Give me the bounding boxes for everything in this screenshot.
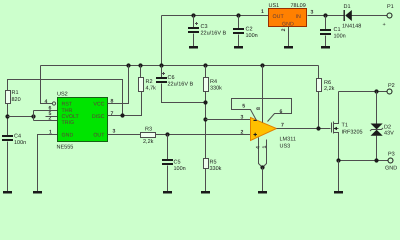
wire: mid VCC rail y=65 <box>41 65 319 67</box>
ground (C1) <box>321 46 330 49</box>
wire: CVOLT pin 5 stub <box>46 116 58 118</box>
svg-text:1N4148: 1N4148 <box>342 24 361 30</box>
capacitor C4 <box>2 135 13 192</box>
node: dot LM311 pin8 riser on rail <box>260 63 264 67</box>
node: junction dot D2 top <box>374 89 378 93</box>
resistor R5 <box>204 120 209 192</box>
resistor R4 <box>204 66 209 120</box>
capacitor C5 <box>162 135 173 192</box>
wire: minus input net to LM311 pin 3 <box>206 119 251 121</box>
resistor R6 <box>317 66 322 129</box>
node: junction dot THR-TRIG tie <box>31 114 35 118</box>
svg-text:P3: P3 <box>388 151 395 157</box>
svg-text:NE555: NE555 <box>57 145 74 151</box>
label R3 value <box>143 127 154 146</box>
svg-text:100n: 100n <box>246 33 258 39</box>
label R1 value <box>12 90 21 103</box>
wire: THR-TRIG vertical tie <box>33 111 35 121</box>
svg-text:D1: D1 <box>344 4 351 10</box>
label D1 value <box>342 4 361 30</box>
svg-text:7: 7 <box>281 123 284 129</box>
label LM311 US3 <box>280 137 296 150</box>
wire: rail down to 555 RST pin 4 <box>41 66 53 104</box>
svg-text:GND: GND <box>62 133 74 139</box>
IC US1 78L09 regulator <box>269 9 307 28</box>
svg-text:T1: T1 <box>342 123 348 129</box>
svg-text:8: 8 <box>256 107 262 110</box>
node: junction dot C6/R4 bottom <box>203 100 207 104</box>
wire: LM311 pin 1 down to ground join <box>263 140 267 168</box>
label C4 value <box>14 134 26 147</box>
svg-text:OUT: OUT <box>93 133 105 139</box>
svg-text:GND: GND <box>282 22 294 28</box>
wire: 555 GND pin 1 to ground <box>38 135 58 192</box>
node: junction dot LM311 gnd pins <box>260 165 264 169</box>
svg-text:820: 820 <box>12 97 21 103</box>
wire: balance loop pins 5 and 6 <box>232 99 292 122</box>
svg-text:C3: C3 <box>201 24 208 30</box>
svg-text:R2: R2 <box>146 79 153 85</box>
label US1 78L09 <box>269 3 306 9</box>
wire: D1 anode to P1 <box>352 15 388 17</box>
node: dot C6 cross on rail <box>159 63 163 67</box>
svg-text:1: 1 <box>49 130 52 136</box>
svg-text:C2: C2 <box>246 27 253 33</box>
node: junction dot DISC/R1 branch <box>120 113 124 117</box>
node: dot R2 top on rail <box>138 63 142 67</box>
svg-text:+: + <box>383 22 386 28</box>
wire: 555 VCC pin 8 riser to rail <box>108 66 129 104</box>
node: RST inversion bubble <box>52 102 55 105</box>
wire: source rail to P3 <box>339 160 389 162</box>
wire: 555 OUT pin 3 to R3 <box>108 134 141 136</box>
wire: THR pin 6 lead <box>34 110 58 112</box>
node: junction dot C3 tap <box>191 13 195 17</box>
wire: TRIG pin 2 lead <box>34 120 58 122</box>
svg-text:2,2k: 2,2k <box>324 86 335 92</box>
ground (T1 source) <box>334 191 343 194</box>
svg-text:3: 3 <box>241 115 244 121</box>
label R4 value <box>210 79 222 92</box>
svg-text:2: 2 <box>241 130 244 136</box>
node: junction dot R5/minus input <box>203 117 207 121</box>
svg-text:C1: C1 <box>334 27 341 33</box>
svg-text:C6: C6 <box>168 75 175 81</box>
label R2 value <box>146 79 157 92</box>
svg-text:R4: R4 <box>210 79 217 85</box>
label D2 value <box>384 125 394 137</box>
ground (C5) <box>163 191 172 194</box>
svg-text:1: 1 <box>261 9 264 15</box>
capacitor C1 <box>320 16 331 47</box>
svg-text:43V: 43V <box>384 130 394 136</box>
node: junction dot R6/output <box>316 126 320 130</box>
svg-text:100n: 100n <box>14 140 26 146</box>
label R5 value <box>210 160 222 173</box>
svg-text:R1: R1 <box>12 90 19 96</box>
svg-text:R6: R6 <box>324 80 331 86</box>
node: dot 555 pin8 riser on rail <box>126 63 130 67</box>
resistor R3 <box>141 133 251 138</box>
capacitor C3 electrolytic <box>188 16 199 47</box>
svg-text:LM311: LM311 <box>280 137 296 143</box>
wire: LM311 gnd drop <box>262 168 264 192</box>
svg-text:4: 4 <box>45 99 48 105</box>
svg-text:4: 4 <box>256 146 262 149</box>
label C2 value <box>246 27 258 40</box>
diode D1 <box>344 10 352 21</box>
ground (LM311) <box>258 191 267 194</box>
svg-text:C4: C4 <box>14 134 21 140</box>
svg-text:VCC: VCC <box>93 101 104 107</box>
label C1 value <box>334 27 346 40</box>
ground (C4) <box>3 191 12 194</box>
svg-text:8: 8 <box>111 98 114 104</box>
node: junction dot R3/C5 <box>165 132 169 136</box>
label C6 value <box>168 75 194 88</box>
svg-text:1: 1 <box>262 146 268 149</box>
diode D2 transil <box>370 92 383 161</box>
svg-text:7: 7 <box>111 111 114 117</box>
svg-text:C5: C5 <box>174 160 181 166</box>
node P1 terminal <box>387 13 392 18</box>
node P2 terminal <box>387 89 392 94</box>
wire: T1 drain rail to P2 <box>339 91 388 93</box>
svg-text:IRF3205: IRF3205 <box>342 130 363 136</box>
svg-text:P1: P1 <box>387 4 394 10</box>
svg-text:GND: GND <box>385 165 397 171</box>
svg-text:100n: 100n <box>334 33 346 39</box>
wire: regulator IN pin 3 to D1 cathode <box>308 15 345 17</box>
ground (555 pin1) <box>33 191 42 194</box>
svg-text:6: 6 <box>280 109 283 115</box>
label C3 value <box>201 24 227 37</box>
svg-text:3: 3 <box>113 129 116 135</box>
resistor R2 <box>139 66 144 92</box>
op-amp US3 LM311 comparator <box>251 118 277 141</box>
wire: R1 bottom to C4 <box>7 104 9 136</box>
wire: US1 GND pin down <box>288 27 290 47</box>
svg-text:5: 5 <box>49 111 52 117</box>
node: dot R4 top on rail <box>203 63 207 67</box>
node: junction dot C1 tap <box>323 13 327 17</box>
label R6 value <box>324 80 335 92</box>
svg-text:TRIG: TRIG <box>62 120 75 126</box>
svg-text:THR: THR <box>62 108 73 114</box>
svg-text:P2: P2 <box>388 83 395 89</box>
ground (C2) <box>234 46 243 49</box>
svg-text:3: 3 <box>311 10 314 16</box>
wire: ground drop at T1 source <box>338 161 340 192</box>
ground (C3) <box>189 46 198 49</box>
wire: R1 top link over to DISC branch <box>8 80 123 116</box>
svg-text:4,7k: 4,7k <box>146 86 157 92</box>
svg-text:22u/16V B: 22u/16V B <box>201 31 227 37</box>
label T1 value <box>342 123 363 136</box>
svg-text:R5: R5 <box>210 160 217 166</box>
svg-text:330k: 330k <box>210 166 222 172</box>
svg-text:IN: IN <box>296 14 301 20</box>
svg-text:2,2k: 2,2k <box>143 139 154 145</box>
wire: top supply rail from C6 branch to regulator OUT pin <box>162 15 269 17</box>
ground (R5) <box>201 191 210 194</box>
svg-text:US1: US1 <box>269 3 280 9</box>
IC US2 NE555 <box>58 98 108 142</box>
label C5 value <box>174 160 186 173</box>
svg-text:100n: 100n <box>174 166 186 172</box>
svg-text:US2: US2 <box>57 91 68 97</box>
svg-text:5: 5 <box>242 104 245 110</box>
svg-text:OUT: OUT <box>273 14 285 20</box>
svg-text:US3: US3 <box>280 144 291 150</box>
wire: LM311 pin 4 down to ground join <box>259 138 263 168</box>
wire: junction over to THR/TRIG tie <box>8 116 34 118</box>
capacitor C2 <box>233 16 244 47</box>
ground (US1) <box>284 46 293 49</box>
capacitor C6 electrolytic <box>156 66 206 103</box>
svg-text:330k: 330k <box>210 86 222 92</box>
node: junction dot C2 tap <box>236 13 240 17</box>
node: junction dot R1/C4/tie <box>5 114 9 118</box>
wire: LM311 pin8 VCC riser <box>262 66 264 123</box>
node P3 terminal <box>388 158 393 163</box>
transistor T1 IRF3205 MOSFET <box>332 92 339 161</box>
svg-text:22u/16V B: 22u/16V B <box>168 82 194 88</box>
wire: LM311 output pin 7 to T1 gate <box>277 128 331 130</box>
node: junction dot T1 source/ground <box>336 158 340 162</box>
svg-text:78L09: 78L09 <box>291 3 306 9</box>
svg-text:2: 2 <box>281 28 287 31</box>
svg-text:R3: R3 <box>145 127 152 133</box>
resistor R1 <box>6 91 11 104</box>
wire: 555 DISC pin 7 to R2 bottom <box>108 92 142 116</box>
node: junction dot D2 bottom <box>374 158 378 162</box>
svg-text:DISC: DISC <box>92 114 105 120</box>
svg-text:RST: RST <box>62 101 73 107</box>
wire: vertical linking top rail to mid rail at x=161 <box>161 16 163 66</box>
